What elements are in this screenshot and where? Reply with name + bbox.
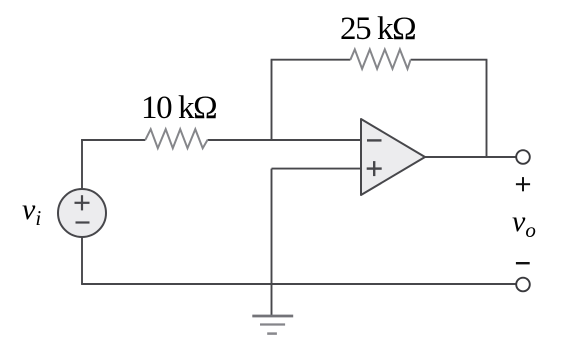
value label 10 kOhm bbox=[141, 90, 216, 127]
wire: feedback right vertical, x=486.5 bbox=[486, 60, 488, 157]
ground bbox=[252, 316, 293, 334]
op-amp inverting input marker (minus) bbox=[367, 139, 382, 141]
value label 25 kOhm bbox=[340, 11, 415, 48]
label - (output polarity bottom) bbox=[516, 262, 530, 264]
label v_i (source voltage) bbox=[22, 193, 41, 231]
wire: left rail vertical from source bottom to bottom rail bbox=[81, 238, 83, 285]
op-amp U1 bbox=[361, 119, 425, 195]
output terminal (bottom, -) bbox=[516, 278, 530, 292]
voltage source minus marker bbox=[76, 221, 90, 223]
resistor 10 kOhm (input resistor) bbox=[145, 129, 207, 148]
wire: feedback left vertical, x=271.5 bbox=[271, 60, 273, 140]
wire: left rail vertical from input wire to source top bbox=[81, 140, 83, 189]
resistor 25 kOhm (feedback resistor) bbox=[350, 49, 410, 68]
label + (output polarity top) bbox=[516, 177, 530, 191]
wire: bottom rail, y=284 bbox=[81, 283, 515, 285]
wire: input horizontal net (left rail to inverting input), y=140 bbox=[82, 140, 361, 141]
label v_o (output voltage) bbox=[512, 205, 536, 243]
wire: feedback top horizontal, y=59.7 bbox=[271, 59, 488, 61]
voltage source Vi bbox=[58, 189, 106, 237]
wire: non-inverting input horizontal, y=168.6 bbox=[272, 168, 361, 170]
wire: non-inverting input vertical down to bottom rail and ground stem bbox=[271, 169, 273, 316]
op-amp non-inverting input marker (plus) bbox=[367, 161, 382, 176]
voltage source plus marker bbox=[75, 195, 90, 210]
output terminal (top, +) bbox=[516, 150, 530, 164]
wire: op-amp output to top terminal, y=157 bbox=[425, 156, 516, 158]
